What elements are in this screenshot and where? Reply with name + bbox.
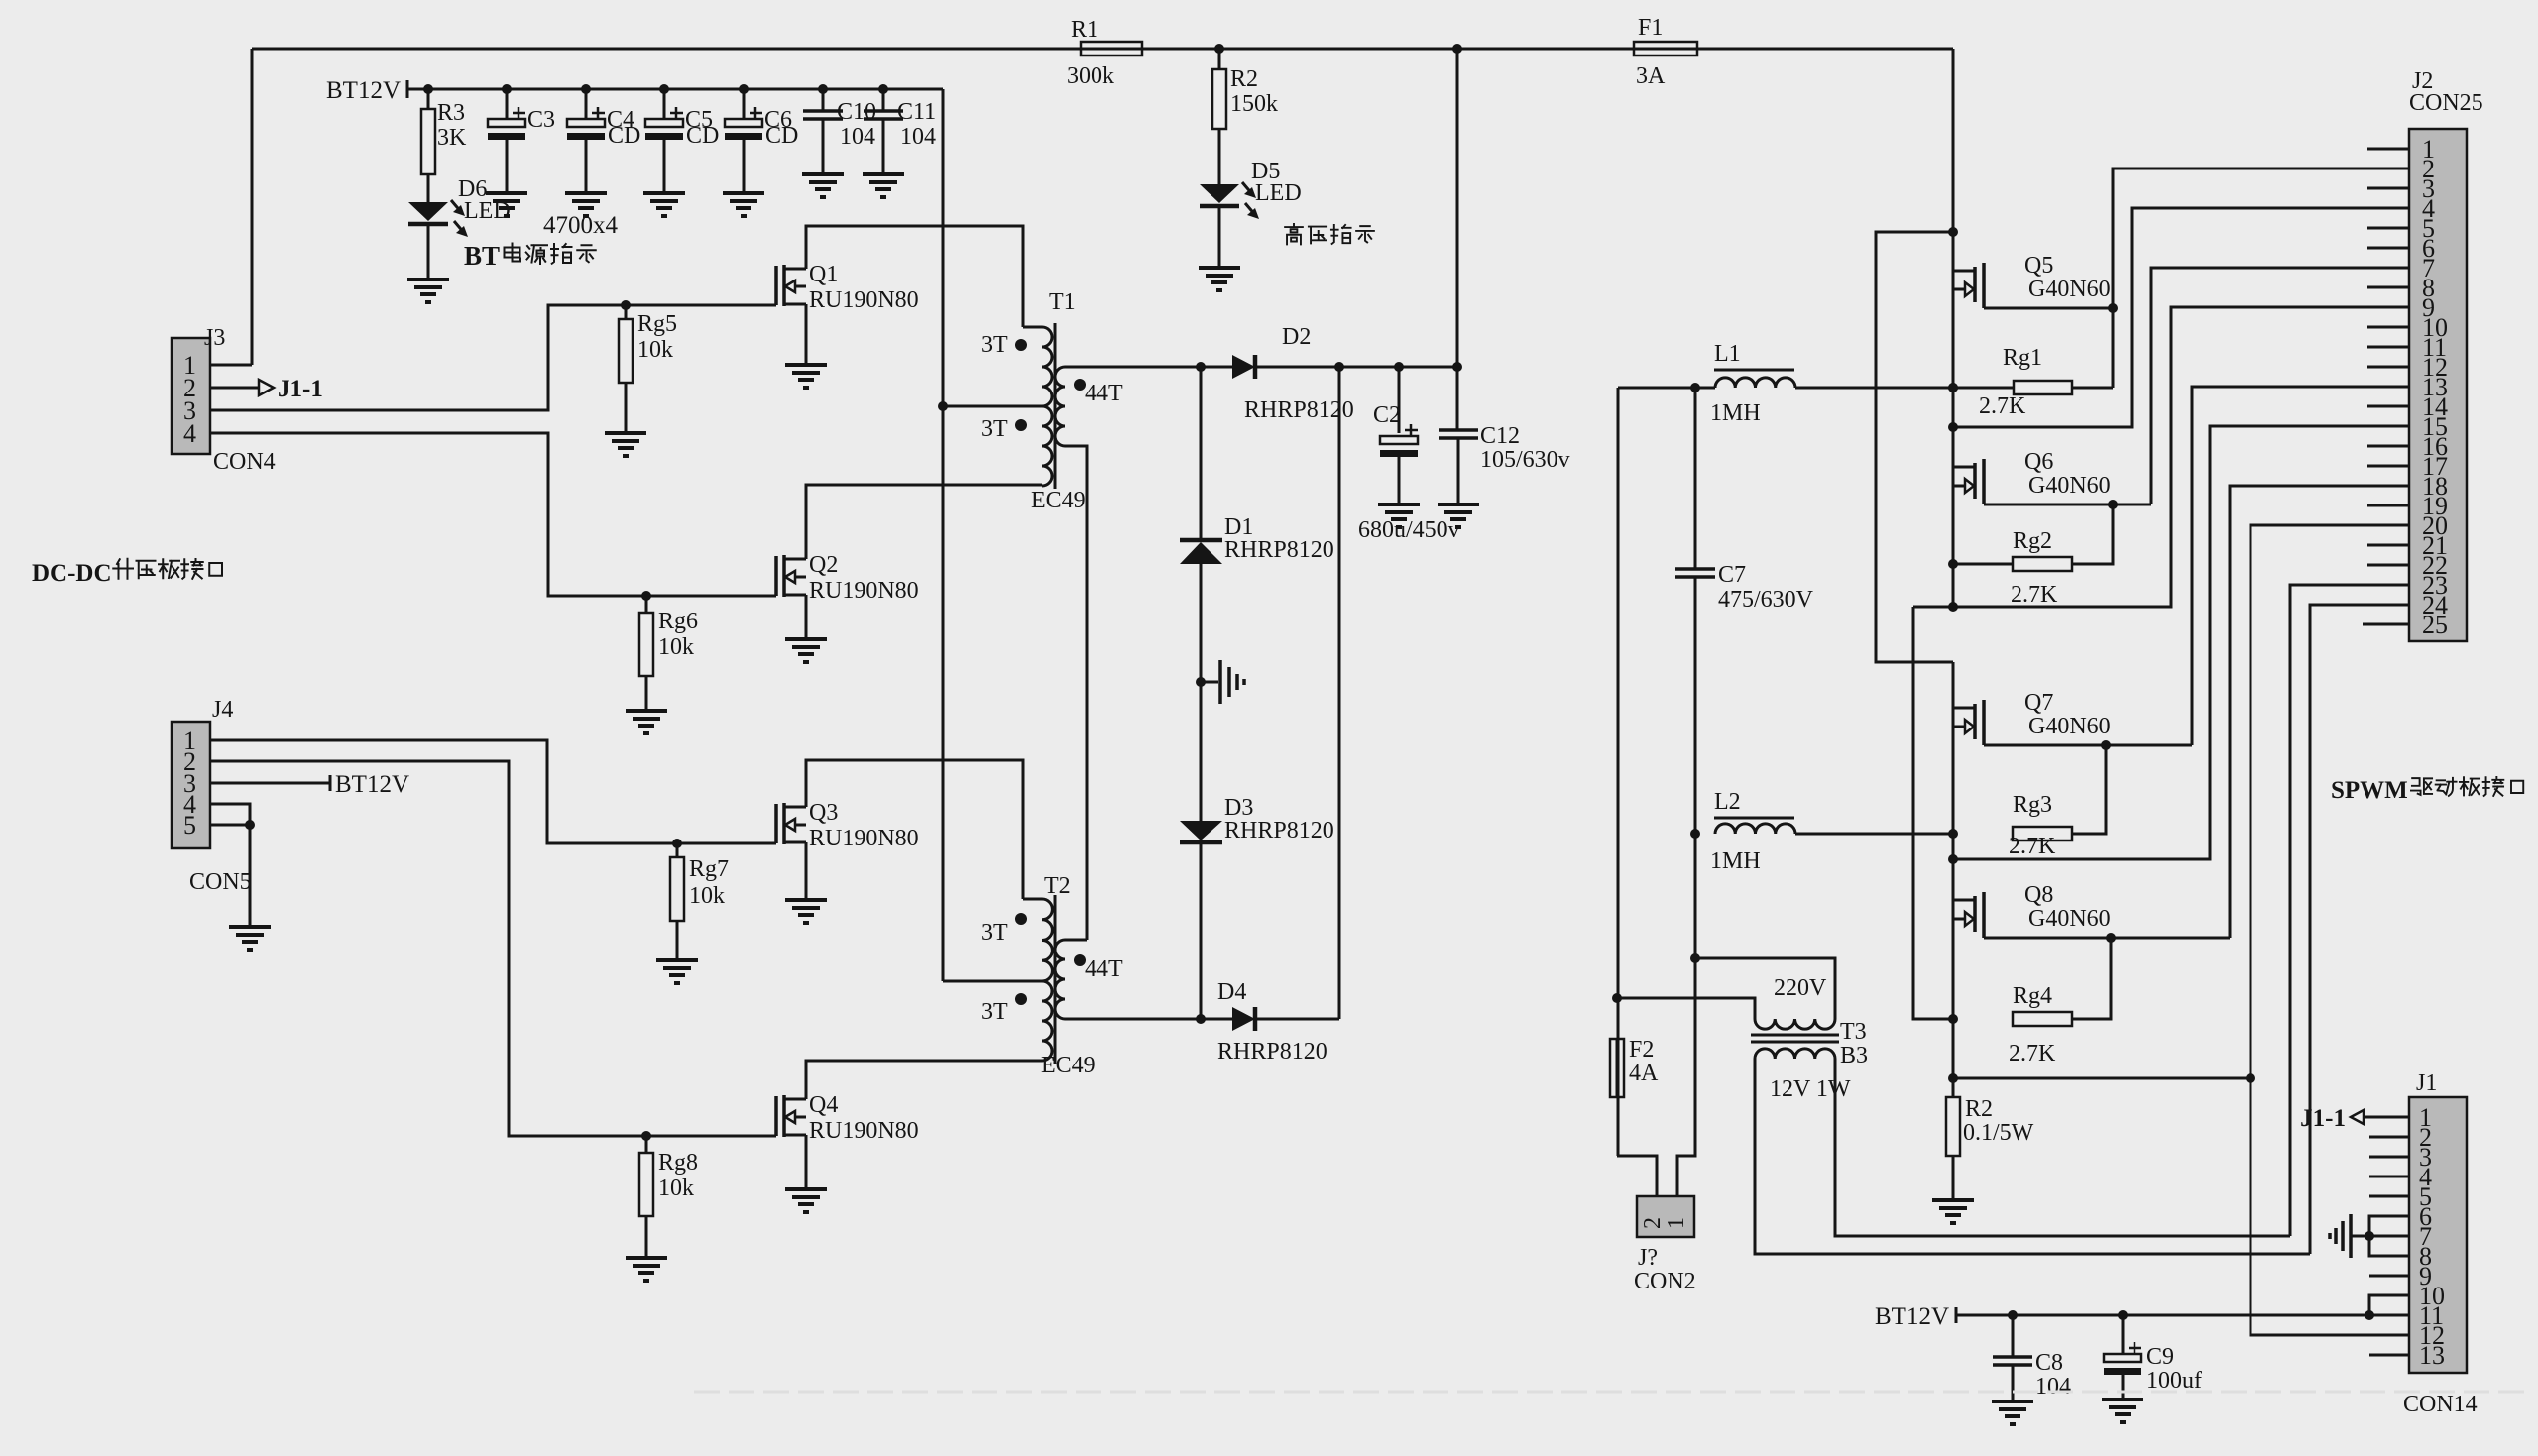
transformer T2 primary upper 3T xyxy=(1042,899,1052,981)
wire Rg8 to ground xyxy=(645,1216,648,1258)
wire R2 to ground xyxy=(1952,1156,1955,1200)
svg-text:2.7K: 2.7K xyxy=(2011,582,2058,608)
wire Rg6 to ground xyxy=(645,676,648,711)
wire J4 to ground xyxy=(249,825,252,927)
wire Rg1 right to pin2 riser xyxy=(2072,387,2113,390)
svg-text:BT12V: BT12V xyxy=(326,77,401,104)
wire BT12V rail to J1 pin11 xyxy=(1956,1314,2409,1317)
svg-text:Rg5: Rg5 xyxy=(637,311,677,337)
ground under R2 xyxy=(1932,1198,1974,1202)
wire L1 to bus xyxy=(1795,387,1953,390)
node C2 tap xyxy=(1394,362,1404,372)
wire J1 pin10 tie to pin11 xyxy=(2369,1295,2409,1315)
wire R3 to D6 xyxy=(427,174,430,202)
node Q6 gate xyxy=(1948,422,1958,432)
capacitor C7 475/630V xyxy=(1675,567,1715,571)
svg-text:Rg6: Rg6 xyxy=(658,609,698,634)
svg-text:1MH: 1MH xyxy=(1710,848,1761,874)
svg-text:J1-1: J1-1 xyxy=(278,376,323,402)
transistor Q4 RU190N80 xyxy=(774,1096,778,1136)
node Q8 gate bus xyxy=(1948,1014,1958,1024)
capacitor C10 xyxy=(818,84,828,94)
svg-text:RU190N80: RU190N80 xyxy=(809,287,919,313)
ground under C4 xyxy=(565,191,607,195)
node T3 primary right branch xyxy=(1690,953,1700,963)
svg-text:EC49: EC49 xyxy=(1031,488,1086,513)
node D2/D4 rail xyxy=(1334,362,1344,372)
ground under C5 xyxy=(643,191,685,195)
node L1/Rg1 xyxy=(1948,383,1958,392)
svg-text:680u/450v: 680u/450v xyxy=(1358,517,1460,543)
svg-text:4700x4: 4700x4 xyxy=(543,212,619,239)
ground under C11 xyxy=(863,172,904,176)
capacitor C9 100uf xyxy=(2118,1310,2128,1320)
svg-text:C2: C2 xyxy=(1373,402,1401,428)
ground under Q4 xyxy=(785,1187,827,1191)
ground rotated at J1 xyxy=(2352,1235,2369,1238)
transformer T1 secondary 44T xyxy=(1055,367,1065,446)
inductor L1 1MH xyxy=(1715,378,1795,388)
ground rotated at mid node xyxy=(1201,681,1218,684)
node Q7 emitter xyxy=(2101,740,2111,750)
ground under Rg8 xyxy=(626,1256,667,1260)
svg-text:25: 25 xyxy=(2422,611,2448,639)
wire Rg7 to ground xyxy=(676,921,679,960)
diode D1 RHRP8120 xyxy=(1180,538,1222,543)
port J1-1 arrow at J1 xyxy=(2351,1110,2364,1124)
svg-text:10k: 10k xyxy=(658,1176,694,1201)
svg-text:G40N60: G40N60 xyxy=(2028,714,2111,739)
wire Q5 emitter row xyxy=(1984,307,2113,310)
ground under C12 xyxy=(1438,503,1479,506)
transistor Q7 G40N60 xyxy=(1953,707,1975,710)
svg-text:C8: C8 xyxy=(2035,1350,2063,1376)
svg-text:T2: T2 xyxy=(1044,873,1071,899)
net label BT12V mid xyxy=(210,782,330,785)
transformer T3 secondary 12V xyxy=(1755,1049,1835,1059)
node J1 ground xyxy=(2365,1231,2374,1241)
wire T3 secondary right to J2 pin23 net xyxy=(1835,1059,2290,1236)
transistor Q3 RU190N80 xyxy=(774,804,778,843)
svg-text:Rg8: Rg8 xyxy=(658,1150,698,1176)
ground under C3 xyxy=(486,191,527,195)
svg-text:RHRP8120: RHRP8120 xyxy=(1244,397,1354,423)
svg-text:Q5: Q5 xyxy=(2024,253,2053,279)
svg-text:RHRP8120: RHRP8120 xyxy=(1217,1039,1327,1064)
ground under Rg7 xyxy=(656,958,698,962)
wire J2 pin9 net row xyxy=(1913,307,2409,607)
wire R2 top row / pin20 net xyxy=(1953,1077,2250,1080)
net label BT12V bottom xyxy=(1955,1307,1958,1323)
svg-text:D2: D2 xyxy=(1282,324,1311,350)
svg-text:3K: 3K xyxy=(437,125,467,151)
resistor Rg7 xyxy=(672,839,682,848)
svg-text:D4: D4 xyxy=(1217,979,1246,1005)
svg-text:RHRP8120: RHRP8120 xyxy=(1224,818,1334,843)
wire T2 secondary top xyxy=(1065,939,1087,942)
svg-text:R2: R2 xyxy=(1965,1096,1993,1122)
svg-text:2.7K: 2.7K xyxy=(2009,1041,2056,1066)
wire D2 output row xyxy=(1201,366,1232,369)
wire T2 secondary bottom to D4 xyxy=(1065,1018,1232,1021)
wire D3 to D4 row xyxy=(1200,842,1203,1019)
wire HV bus to D2 row xyxy=(1456,49,1459,430)
svg-text:1MH: 1MH xyxy=(1710,400,1761,426)
svg-text:J3: J3 xyxy=(204,325,225,351)
wire Q4 drain to T2 bottom xyxy=(806,1061,1042,1099)
svg-text:G40N60: G40N60 xyxy=(2028,277,2111,302)
wire Q1 source to ground xyxy=(805,304,808,365)
svg-text:Q7: Q7 xyxy=(2024,690,2053,716)
svg-text:220V: 220V xyxy=(1774,975,1827,1001)
node T1 centre tap xyxy=(938,401,948,411)
svg-text:105/630v: 105/630v xyxy=(1480,447,1570,473)
capacitor C3 xyxy=(502,84,512,94)
node D3/D4 junction xyxy=(1196,1014,1206,1024)
wire J2 pin23 riser xyxy=(2290,585,2409,1236)
wire C7 to L2 row xyxy=(1694,577,1697,1156)
wire J2 pin18 riser xyxy=(2230,486,2409,938)
capacitor C12 105/630v xyxy=(1439,428,1478,432)
wire J2 pin20 riser to J1 pin12 xyxy=(2250,525,2409,1335)
inductor L2 1MH xyxy=(1715,824,1795,834)
svg-text:3T: 3T xyxy=(981,999,1008,1025)
wire J2 pin24 riser xyxy=(2310,605,2409,1254)
node Q6 emitter xyxy=(2108,500,2118,509)
wire T2 centre tap xyxy=(943,980,1042,983)
svg-text:C9: C9 xyxy=(2146,1344,2174,1370)
wire L2 to bus xyxy=(1795,833,1953,836)
node R1-R2 junction xyxy=(1214,44,1224,54)
transformer T3 core xyxy=(1751,1034,1839,1037)
svg-text:CON25: CON25 xyxy=(2409,90,2483,116)
resistor Rg4 2.7K xyxy=(2013,1012,2072,1026)
svg-text:CD: CD xyxy=(608,123,640,149)
wire T1 secondary top to D2 row xyxy=(1065,366,1201,369)
wire BT12V rail xyxy=(407,88,943,91)
svg-text:100uf: 100uf xyxy=(2146,1368,2202,1394)
wire D2 row to D1 xyxy=(1200,367,1203,540)
svg-text:F1: F1 xyxy=(1638,15,1663,41)
ground under D6 xyxy=(407,278,449,281)
resistor R2 150k xyxy=(1218,49,1221,69)
node F2/220V xyxy=(1612,993,1622,1003)
svg-text:Q4: Q4 xyxy=(809,1092,838,1118)
node HV bus / C12 branch xyxy=(1452,44,1462,54)
svg-text:Q1: Q1 xyxy=(809,262,838,287)
svg-text:10k: 10k xyxy=(689,883,725,909)
svg-text:CD: CD xyxy=(686,123,719,149)
connector J2 CON25 xyxy=(2409,129,2467,641)
transformer T2 primary lower 3T xyxy=(1042,981,1052,1061)
ground under Q1 xyxy=(785,363,827,367)
wire L1 drop to F2 xyxy=(1617,388,1620,1156)
svg-text:J1: J1 xyxy=(2416,1070,2437,1096)
node D1 branch xyxy=(1196,362,1206,372)
wire T3 secondary left to J2 pin24 net xyxy=(1755,1059,2310,1254)
svg-text:104: 104 xyxy=(900,124,936,150)
svg-text:RU190N80: RU190N80 xyxy=(809,826,919,851)
svg-text:4: 4 xyxy=(183,419,196,448)
wire J3 pin1 to top bus xyxy=(210,364,252,367)
svg-text:3T: 3T xyxy=(981,332,1008,358)
transformer T1 core xyxy=(1054,323,1057,489)
node C12 tap xyxy=(1452,362,1462,372)
wire J4 pin1 to Q3 gate xyxy=(210,740,776,843)
svg-text:J1-1: J1-1 xyxy=(2300,1105,2346,1132)
svg-text:3A: 3A xyxy=(1636,63,1666,89)
wire D1 to mid node xyxy=(1200,564,1203,821)
wire Q2 source to ground xyxy=(805,595,808,639)
resistor Rg5 xyxy=(621,300,631,310)
transformer T1 primary lower 3T xyxy=(1042,406,1052,486)
ground under C9 xyxy=(2102,1398,2143,1401)
port J1-1 arrow xyxy=(259,380,274,395)
svg-text:5: 5 xyxy=(183,811,196,840)
svg-text:C11: C11 xyxy=(897,99,936,125)
transistor Q1 RU190N80 xyxy=(774,266,778,305)
wire J2 pin15 riser xyxy=(1953,426,2409,859)
svg-text:0.1/5W: 0.1/5W xyxy=(1963,1120,2034,1146)
wire J4 pin2 to Q4 gate xyxy=(210,761,776,1136)
wire Q6 emitter row to pin7 riser xyxy=(1984,504,2151,506)
node R2 top xyxy=(1948,1073,1958,1083)
fuse F2 4A xyxy=(1610,1039,1624,1097)
svg-text:LED: LED xyxy=(1255,180,1302,206)
wire T1 centre-tap drop xyxy=(942,89,945,981)
svg-text:DC-DC: DC-DC xyxy=(32,560,112,587)
svg-text:Q8: Q8 xyxy=(2024,882,2053,908)
svg-text:BT: BT xyxy=(464,241,500,271)
wire J1 pin6-7-8 ground bracket xyxy=(2369,1216,2409,1256)
svg-text:10k: 10k xyxy=(658,634,694,660)
svg-text:2.7K: 2.7K xyxy=(1979,393,2026,419)
transistor Q5 G40N60 xyxy=(1953,270,1975,273)
svg-text:10k: 10k xyxy=(637,337,673,363)
transformer T1 primary upper 3T xyxy=(1042,327,1052,406)
svg-text:Rg4: Rg4 xyxy=(2013,983,2052,1009)
svg-text:BT12V: BT12V xyxy=(1875,1303,1949,1330)
svg-text:Q2: Q2 xyxy=(809,552,838,578)
ground under Rg5 xyxy=(605,431,646,435)
svg-text:300k: 300k xyxy=(1067,63,1114,89)
svg-text:3T: 3T xyxy=(981,920,1008,946)
ground under C2 xyxy=(1378,503,1420,506)
svg-text:BT12V: BT12V xyxy=(335,771,409,798)
wire T3 primary left xyxy=(1617,998,1755,1019)
wire Q7 emitter row to pin13 riser xyxy=(1984,744,2192,747)
svg-text:T1: T1 xyxy=(1049,289,1076,315)
wire HV bus drop to Q5 xyxy=(1952,49,1955,607)
wire Q8 emitter row to pin18 riser xyxy=(1984,937,2230,940)
resistor Rg3 2.7K xyxy=(2013,827,2072,840)
wire Rg2 left to bus xyxy=(1953,563,2013,566)
transistor Q6 G40N60 xyxy=(1953,466,1975,469)
svg-text:C7: C7 xyxy=(1718,562,1746,588)
node J4 pin5 xyxy=(245,820,255,830)
svg-text:Q3: Q3 xyxy=(809,800,838,826)
svg-text:13: 13 xyxy=(2419,1341,2445,1370)
capacitor C6 xyxy=(739,84,749,94)
wire J2 pin7 riser xyxy=(2151,268,2409,504)
fuse F1 xyxy=(1634,42,1697,56)
svg-text:104: 104 xyxy=(2035,1374,2071,1400)
resistor Rg6 xyxy=(641,591,651,601)
svg-text:Q6: Q6 xyxy=(2024,449,2053,475)
node L2/Rg3 xyxy=(1948,829,1958,839)
svg-text:G40N60: G40N60 xyxy=(2028,473,2111,499)
svg-text:B3: B3 xyxy=(1840,1043,1868,1068)
node L1/C7 xyxy=(1690,383,1700,392)
LED D6 xyxy=(408,202,448,221)
svg-text:J4: J4 xyxy=(212,697,233,723)
wire Q3 drain to T2 top xyxy=(806,760,1023,899)
svg-text:CD: CD xyxy=(765,123,798,149)
svg-text:G40N60: G40N60 xyxy=(2028,906,2111,932)
ground under Rg6 xyxy=(626,709,667,713)
wire D5 to ground xyxy=(1218,206,1221,268)
wire J4 pin4-5 tie xyxy=(210,804,250,825)
net label BT12V top xyxy=(406,80,409,98)
wire C7 branch to CON2 pin1 xyxy=(1677,958,1695,1196)
connector J3 CON4 xyxy=(172,338,210,454)
svg-text:44T: 44T xyxy=(1085,956,1123,982)
ground under D5 xyxy=(1199,266,1240,270)
transformer T2 secondary 44T xyxy=(1055,940,1065,1019)
transistor Q2 RU190N80 xyxy=(774,556,778,596)
ground under C8 xyxy=(1992,1400,2033,1403)
svg-text:F2: F2 xyxy=(1629,1037,1654,1063)
svg-text:EC49: EC49 xyxy=(1041,1053,1096,1078)
svg-text:Rg7: Rg7 xyxy=(689,856,729,882)
wire J3 pin4 to Q2 gate xyxy=(210,433,776,596)
node Q8 emitter xyxy=(2106,933,2116,943)
capacitor C4 xyxy=(581,84,591,94)
resistor Rg8 xyxy=(641,1131,651,1141)
wire Rg5 to ground xyxy=(625,383,628,433)
svg-text:4A: 4A xyxy=(1629,1061,1659,1086)
resistor R3 xyxy=(423,84,433,94)
node Q5 emitter xyxy=(2108,303,2118,313)
wire pin9 net drop to Q8 gate xyxy=(1913,607,1953,1019)
node pin20/J1-12 riser xyxy=(2246,1073,2255,1083)
capacitor C5 xyxy=(659,84,669,94)
wire D2-D4 rail xyxy=(1338,367,1341,1019)
wire C7 top lead xyxy=(1694,388,1697,569)
wire T3 primary right xyxy=(1695,958,1835,1019)
svg-text:CON5: CON5 xyxy=(189,869,252,895)
wire Rg4 right riser xyxy=(2072,938,2111,1019)
node pin15 bus xyxy=(1948,854,1958,864)
svg-text:CON4: CON4 xyxy=(213,449,276,475)
diode D3 RHRP8120 xyxy=(1180,821,1222,840)
wire Rg1 left to bus xyxy=(1953,387,2014,390)
wire branch to Q7 leg xyxy=(1876,232,1953,662)
ground under Q3 xyxy=(785,898,827,902)
svg-text:2.7K: 2.7K xyxy=(2009,834,2056,859)
wire Q2 drain to T1 bottom xyxy=(806,485,1042,559)
svg-text:3T: 3T xyxy=(981,416,1008,442)
svg-text:2: 2 xyxy=(1640,1217,1666,1229)
ground under J4 xyxy=(229,925,271,929)
wire Q1 drain to T1 xyxy=(806,226,1023,327)
capacitor C11 xyxy=(878,84,888,94)
svg-text:RU190N80: RU190N80 xyxy=(809,578,919,604)
svg-text:Rg3: Rg3 xyxy=(2013,792,2052,818)
node L2/C7 xyxy=(1690,829,1700,839)
diode D2 RHRP8120 xyxy=(1232,355,1255,379)
node pin9 bus xyxy=(1948,602,1958,612)
wire T1 secondary bottom to T2 secondary xyxy=(1065,446,1087,940)
wire Rg2 right riser xyxy=(2072,504,2113,564)
wire L1 input xyxy=(1618,387,1715,390)
resistor R1 xyxy=(1081,42,1142,56)
svg-text:J?: J? xyxy=(1638,1245,1658,1271)
capacitor C2 680u/450v xyxy=(1398,367,1401,433)
svg-text:475/630V: 475/630V xyxy=(1718,587,1814,613)
svg-text:SPWM: SPWM xyxy=(2331,777,2408,804)
node Q5 collector branch xyxy=(1948,227,1958,237)
svg-text:L2: L2 xyxy=(1714,789,1741,815)
wire J3 pin1 riser xyxy=(251,49,254,365)
svg-text:CON14: CON14 xyxy=(2403,1392,2478,1417)
svg-text:RU190N80: RU190N80 xyxy=(809,1118,919,1144)
svg-text:C12: C12 xyxy=(1480,423,1520,449)
svg-text:150k: 150k xyxy=(1230,91,1278,117)
connector J1 CON14 xyxy=(2409,1097,2467,1373)
wire J2 pin4 riser xyxy=(1953,208,2409,427)
ground under C10 xyxy=(802,172,844,176)
transistor Q8 G40N60 xyxy=(1953,899,1975,902)
diode D4 RHRP8120 xyxy=(1232,1007,1255,1031)
svg-text:L1: L1 xyxy=(1714,341,1741,367)
wire J2 pin13 riser xyxy=(2192,387,2409,745)
wire D6 to ground xyxy=(427,224,430,280)
svg-text:R2: R2 xyxy=(1230,66,1258,92)
label high voltage indicator xyxy=(1285,224,1303,244)
wire F2 bottom to CON2 pin2 xyxy=(1617,1156,1657,1196)
wire top HV bus xyxy=(252,48,1953,51)
node Rg2 bus xyxy=(1948,559,1958,569)
svg-text:C3: C3 xyxy=(527,107,555,133)
connector J4 CON5 xyxy=(172,722,210,848)
wire J2 pin2 riser xyxy=(2113,168,2409,388)
svg-text:Rg2: Rg2 xyxy=(2013,528,2052,554)
svg-text:Rg1: Rg1 xyxy=(2003,345,2042,371)
capacitor C8 104 xyxy=(2008,1310,2018,1320)
svg-text:RHRP8120: RHRP8120 xyxy=(1224,537,1334,563)
resistor Rg1 2.7K xyxy=(2014,381,2072,394)
svg-text:12V 1W: 12V 1W xyxy=(1770,1076,1851,1102)
svg-text:104: 104 xyxy=(840,124,875,150)
svg-text:R1: R1 xyxy=(1071,17,1098,43)
svg-text:T3: T3 xyxy=(1840,1019,1867,1045)
transformer T3 primary 220V xyxy=(1755,1019,1835,1029)
resistor R2 0.1/5W xyxy=(1946,1097,1960,1156)
wire Rg3 right riser xyxy=(2072,745,2106,834)
svg-text:1: 1 xyxy=(1664,1217,1689,1229)
wire Q3 source to ground xyxy=(805,842,808,900)
resistor Rg2 2.7K xyxy=(2013,557,2072,571)
ground under C6 xyxy=(723,191,764,195)
wire Q4 source to ground xyxy=(805,1135,808,1189)
node J1 pin11 BT12V xyxy=(2365,1310,2374,1320)
ground under Q2 xyxy=(785,637,827,641)
transformer T2 core xyxy=(1054,895,1057,1064)
wire R2 to D5 xyxy=(1218,129,1221,184)
svg-text:44T: 44T xyxy=(1085,381,1123,406)
wire D4 to rail xyxy=(1255,1018,1339,1021)
